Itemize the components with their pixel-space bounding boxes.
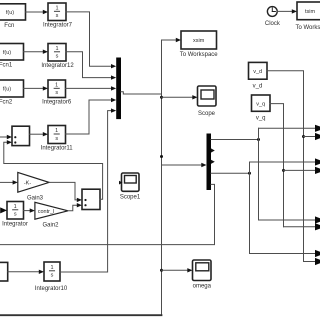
wire v_d bottom to edge arrow H [304,258,320,265]
wire Clock to tsim [277,9,297,13]
block Fcn [0,4,26,20]
wire V2 top to edge arrow A [259,125,320,132]
wire into Integrator (thick arrow) [0,207,7,213]
node line V3 vertical [249,162,251,254]
demux D1 unconnected output chevron 2 [211,148,215,152]
svg-text:tsim: tsim [305,9,316,15]
junction dot demux out1 [257,138,260,141]
wire Integrator7 to mux M1 input 1 [66,12,116,68]
wire Integrator12 to mux M1 input 2 [66,52,116,80]
wire V2 bottom to edge arrow E [259,216,320,223]
sum S2 [82,189,100,209]
integrator I11 [48,126,66,144]
wire Gain3 to sum S2 input 1 [49,182,82,202]
svg-text:v_d: v_d [253,69,262,75]
wire Fcn2 to Integrator6 [24,86,49,90]
gain Gain2 [35,202,68,219]
node line V2 vertical [258,128,260,220]
clock Clock [267,7,277,17]
wire V1 to xsim [162,38,182,42]
wire V1 bottom feedback to left edge [0,314,162,316]
svg-text:Fcn: Fcn [4,23,14,29]
junction dot demux out4 [248,172,251,175]
svg-text:Clock: Clock [265,21,281,27]
scope Scope1 [122,173,140,191]
scope Scope1 input port chevron [119,181,123,185]
wire Integrator10 to mux M1 input 5 [60,108,116,272]
wire V1 to omega scope [162,268,193,272]
wire demux out1 to vertical V2 [211,139,259,141]
scope Scope [198,86,217,106]
node line V1 vertical [161,40,163,315]
wire v_d to vertical V4 [267,71,304,262]
wire demux out4 to vertical V3 [211,172,250,174]
integrator Integrator (row5) [7,202,24,220]
wire v_d branch to edge arrow B [304,133,320,140]
wire Gain2 to sum S2 input 2 [68,203,82,211]
wire Fcn1 to Integrator12 [24,50,49,54]
svg-text:f(u): f(u) [3,50,11,56]
wire V1 to Scope [162,95,198,99]
svg-text:v_q: v_q [256,101,265,107]
svg-text:Integrator: Integrator [2,222,28,228]
svg-text:Integrator12: Integrator12 [41,63,74,69]
svg-text:To Workspace: To Workspace [180,52,219,58]
svg-text:f(u): f(u) [6,10,14,16]
svg-text:Fcn1: Fcn1 [0,63,13,69]
integrator I10 [44,262,60,281]
svg-text:Gain2: Gain2 [42,223,59,229]
integrator I6 [48,80,66,98]
block tsim To Workspace1 [297,2,320,20]
junction dot v_q branch [282,169,285,172]
wire v_q branch to edge arrow D [284,167,320,174]
wire V3 top to edge arrow C [250,158,320,165]
wire V3 bottom to edge arrow G [250,250,320,257]
scope omega [193,260,212,281]
wire cut block to Integrator10 [8,270,44,274]
junction dot v_d branch [302,135,305,138]
svg-text:Integrator11: Integrator11 [41,146,74,152]
svg-text:To Works: To Works [296,25,320,31]
wire sum S1 to Integrator11 [30,132,49,136]
svg-text:v_d: v_d [253,84,263,90]
gain Gain3 [18,172,49,192]
wire v_q bottom to edge arrow F [284,223,320,230]
svg-text:omega: omega [193,284,212,290]
demux D1 [207,134,212,191]
svg-text:v_q: v_q [256,116,266,122]
svg-text:Integrator7: Integrator7 [43,23,73,29]
svg-text:Scope1: Scope1 [120,195,141,201]
block Fcn2 [0,80,24,97]
mux M1 [116,58,121,120]
integrator I7 [48,3,66,21]
wire sum S2 feedback to sum S1 input 2 [4,140,103,199]
svg-text:Fcn2: Fcn2 [0,100,13,106]
block v_d [249,62,268,79]
demux D1 unconnected output chevron 3 [211,160,215,164]
wire v_q to vertical V5 [270,104,284,227]
junction dot V1 to Scope [160,96,163,99]
junction dot V1 upper [160,155,163,158]
svg-text:xsim: xsim [193,38,205,44]
svg-text:Scope: Scope [198,111,216,117]
block xsim To Workspace [181,31,217,49]
wire into Gain3 [0,180,18,184]
svg-text:Gain3: Gain3 [27,196,44,202]
wire Integrator to Gain2 [24,208,35,212]
junction dot V1 to omega [160,269,163,272]
block cut at left edge bottom [0,262,8,281]
block v_q [252,95,271,111]
wire V1 to demux D1 [162,163,207,167]
svg-text:Integrator6: Integrator6 [42,100,72,106]
wire demux out5 down and left [0,184,215,244]
wire into sum S1 input 1 [0,135,12,139]
svg-text:f(u): f(u) [3,87,11,93]
wire mux M1 output to node line V1 [121,92,162,94]
svg-text:Integrator10: Integrator10 [35,286,68,292]
wire Integrator11 to mux M1 input 4 [66,98,117,134]
svg-text:contr_l: contr_l [38,209,55,215]
block Fcn1 [0,44,24,61]
integrator I12 [48,44,66,62]
wire Fcn to Integrator7 [26,10,49,14]
svg-text:-K-: -K- [24,181,32,187]
sum S1 [12,126,30,145]
wire Integrator6 to mux M1 input 3 [66,86,117,90]
